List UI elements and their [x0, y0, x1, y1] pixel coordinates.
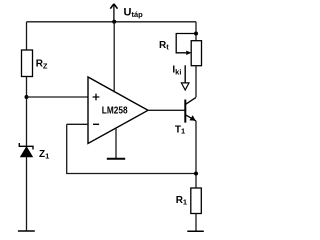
svg-text:Rt: Rt — [159, 40, 169, 52]
transistor T1 collector — [185, 97, 196, 104]
wire right branch rail to Rt — [195, 22, 197, 41]
resistor R1 — [191, 188, 202, 214]
wire RZ bottom to zener — [26, 77, 28, 147]
wire op-amp V- to ground — [115, 129, 117, 159]
wire op-amp V+ supply from rail — [113, 22, 115, 93]
op-amp plus input pin symbol — [93, 94, 100, 101]
node junction Utap on rail — [112, 20, 116, 24]
ground left — [18, 230, 35, 232]
wire emitter to R1 — [195, 121, 197, 188]
wire left branch top — [26, 22, 28, 50]
wire op-amp output to base — [148, 109, 185, 111]
node junction Rt wiper — [194, 32, 198, 36]
ground op-amp — [107, 158, 125, 160]
svg-text:Z1: Z1 — [39, 149, 49, 161]
op-amp U1 triangle — [88, 77, 148, 144]
wire zener anode to ground — [26, 157, 28, 231]
wire top supply rail — [27, 21, 197, 23]
Utap supply arrow — [110, 4, 117, 22]
wire R1 to ground — [195, 214, 197, 232]
wire feedback loop — [67, 124, 196, 173]
node A dot (RZ / zener / op-amp + input) — [25, 95, 29, 99]
wire minus input to feedback — [67, 123, 88, 125]
svg-text:T1: T1 — [175, 125, 185, 136]
ground right — [187, 230, 204, 232]
transistor T1 emitter with arrow — [185, 114, 196, 121]
Rt wiper arm with arrow — [176, 34, 196, 56]
zener diode Z1 — [19, 143, 33, 157]
node junction emitter feedback — [194, 172, 198, 176]
Iki current arrow — [181, 65, 189, 90]
potentiometer Rt body — [191, 41, 201, 66]
svg-text:R1: R1 — [176, 195, 187, 207]
resistor RZ — [22, 50, 33, 77]
wire node A to op-amp plus input — [27, 96, 89, 98]
svg-text:LM258: LM258 — [102, 106, 128, 117]
op-amp minus input pin symbol — [93, 123, 99, 125]
transistor T1 base bar — [184, 100, 186, 123]
wire Rt bottom to collector — [195, 66, 197, 98]
